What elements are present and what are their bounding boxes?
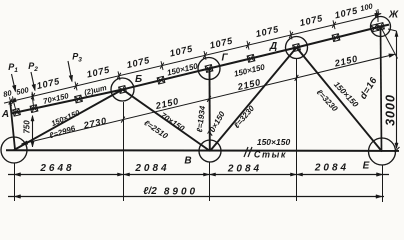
left end post / extension (10, 102, 15, 150)
extension line below Д (296, 59, 298, 202)
top chord 150x150 from left post top to node Ж (11, 25, 389, 114)
svg-text:Ж: Ж (388, 10, 399, 21)
tick on top dimension line (332, 22, 336, 28)
dimension line 2648/2084/2084/2084 (8, 174, 389, 176)
bolt 5 on top chord (157, 76, 165, 84)
svg-text:Стык: Стык (254, 150, 287, 160)
bolt 9 on top chord (332, 34, 340, 42)
dimension line l/2 8900 (8, 196, 384, 198)
left arrow of sloped dimension line (21, 141, 28, 146)
tick on top dimension line (203, 52, 207, 58)
node Ж circle (371, 17, 391, 37)
right end arrow of top dimension line (375, 12, 382, 17)
bolt 2 on top chord (30, 105, 38, 113)
svg-text:2084: 2084 (314, 163, 349, 174)
svg-text:Д: Д (269, 41, 277, 52)
tick on top dimension line (117, 73, 121, 79)
dimension 750 at left post (32, 116, 34, 148)
node А circle (1, 137, 27, 163)
dimension 3000 at right side (396, 31, 398, 149)
svg-text:3000: 3000 (384, 94, 398, 126)
tick on top dimension line (9, 99, 13, 105)
extension from Ж to 3000 dim line (388, 29, 397, 31)
extension from chord bolts to dim line at left (13, 100, 17, 113)
bolt 6 on top chord (205, 65, 213, 73)
extension line above node Ж (377, 9, 379, 22)
node Б circle (111, 78, 134, 101)
tick on sloped dimension line (207, 96, 211, 102)
tick on top dimension line (160, 63, 164, 69)
svg-text:150×150: 150×150 (257, 137, 291, 147)
svg-text:В: В (184, 156, 191, 167)
svg-text:Б: Б (135, 74, 142, 85)
tick on sloped dimension line (121, 117, 125, 123)
steel rod Ж-Е d=16 (381, 27, 382, 152)
node В circle (199, 140, 221, 162)
tick on sloped dimension line (295, 75, 299, 81)
tick on top dimension line (289, 32, 293, 38)
svg-text:А: А (1, 109, 9, 120)
extension line below В (209, 162, 211, 201)
bolt 7 on top chord (247, 55, 255, 63)
splice mark (Стык) on bottom chord (244, 147, 248, 157)
sloped dimension line for panels 2730,2150,2150,2150 (22, 54, 396, 144)
node Г circle (198, 58, 220, 80)
member А-Б (150x150, l=2996) (14, 90, 123, 151)
diagonal Б-В (70x150, l=2510) (123, 90, 211, 152)
tick on top dimension line (375, 12, 379, 18)
svg-text:2648: 2648 (39, 163, 74, 174)
svg-text:Г: Г (221, 53, 228, 64)
extension line below А (14, 164, 16, 202)
right arrow of sloped dimension line (389, 52, 396, 57)
svg-text:ℓ/2: ℓ/2 (143, 186, 157, 197)
node Е circle (369, 138, 396, 165)
tick on top dimension line (31, 93, 35, 99)
extension line from Ж to sloped dimension line (381, 27, 398, 59)
diagonal Д-Е (150x150, l=3230) (297, 48, 383, 152)
svg-text:Е: Е (363, 161, 370, 172)
tick on top dimension line (246, 42, 250, 48)
tick at bottom of 3000 dim (395, 147, 400, 152)
dimension line along top chord (80,500,1075x8,100) (4, 14, 381, 104)
bolt 4 on top chord (119, 86, 127, 94)
left end arrow of top dimension line (10, 99, 16, 103)
extension line below Е (382, 165, 384, 202)
svg-text:2084: 2084 (227, 164, 262, 175)
bolt 10 on top chord (371, 24, 379, 32)
diagonal В-Д (70x150, L=3230) (210, 48, 297, 152)
vertical Г-В (l=1934) (209, 69, 211, 152)
bolt 1 on top chord (13, 108, 21, 116)
bolt 3 on top chord (75, 95, 83, 103)
tick on top dimension line (74, 83, 78, 89)
bolt 8 on top chord (293, 44, 301, 52)
bottom chord 150x150 from А to past Е (6, 149, 399, 152)
bolt 11 on top chord (377, 23, 385, 31)
node Д circle (286, 37, 308, 59)
svg-text:8900: 8900 (164, 187, 198, 198)
tick on top dimension line (12, 98, 16, 104)
svg-text:750: 750 (23, 120, 32, 134)
svg-text:2084: 2084 (134, 163, 169, 174)
extension line below Б (123, 102, 125, 201)
